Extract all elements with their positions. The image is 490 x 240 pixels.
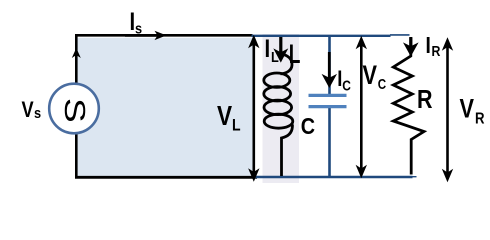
inductor background strip [263,34,300,183]
svg-text:I: I [265,35,271,62]
svg-text:I: I [426,32,431,58]
wire left vertical [75,35,78,178]
svg-text:s: s [34,104,41,121]
arrow IR down on resistor lead [404,37,417,56]
svg-text:R: R [475,111,485,128]
label Is [130,8,136,35]
svg-text:L: L [232,116,241,134]
arrow VC measurement double-headed [357,37,366,177]
arrow VR measurement double-headed [443,39,452,182]
label IR subscript R [432,43,441,59]
label IL subscript L [271,48,279,65]
arrow VL measurement double-headed [249,36,258,181]
wire top left horizontal [75,34,253,37]
svg-text:C: C [342,77,351,94]
wire capacitor bottom lead [328,108,331,178]
inductor L1 coil [264,50,293,176]
label IC [337,66,342,91]
svg-text:V: V [460,95,474,125]
shaded source-loop region [78,38,253,176]
label C [301,112,316,139]
label VC subscript C [378,76,387,93]
svg-text:C: C [378,76,387,93]
label IC subscript C [342,77,351,94]
voltage source U1 circle [49,84,99,134]
label Is subscript s [135,19,142,36]
label IL [265,35,271,62]
wire bottom right horizontal (blue) [253,176,413,179]
label VC [363,61,377,91]
label R [417,85,433,115]
resistor R1 zigzag [393,38,424,175]
arrow source current up [72,48,81,58]
svg-text:R: R [432,43,441,59]
arrow Is along top wire [125,34,158,37]
wire top right horizontal (blue) [252,35,391,37]
arrow IL down on inductor lead [275,37,288,62]
arrow IC down on capacitor lead [323,52,336,87]
label Vs [22,98,35,122]
label L [289,39,301,69]
label VL [217,101,232,132]
svg-text:S: S [58,98,90,123]
svg-text:V: V [22,98,35,122]
svg-text:R: R [417,85,433,115]
label VL subscript L [232,116,241,134]
capacitor C1 plates [309,94,347,97]
svg-text:C: C [301,112,316,139]
svg-text:V: V [217,101,232,132]
label VR subscript R [475,111,485,128]
label Vs subscript s [34,104,41,121]
label VR [460,95,474,125]
wire bottom right thin tail [412,176,417,178]
wire bottom left horizontal [75,176,257,179]
svg-text:V: V [363,61,377,91]
wire top right thin segment [390,34,410,36]
svg-text:L: L [289,39,301,69]
wire capacitor top lead [328,35,331,95]
label IR [426,32,431,58]
